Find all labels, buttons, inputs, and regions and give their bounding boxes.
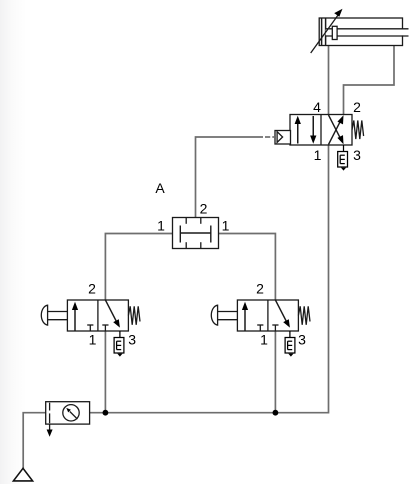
svg-text:3: 3 xyxy=(128,332,136,348)
blocked port T marks xyxy=(89,325,91,331)
svg-text:3: 3 xyxy=(298,332,306,348)
wire: valve S2 port 1 down to supply line xyxy=(274,331,276,413)
svg-text:2: 2 xyxy=(353,99,361,115)
svg-text:A: A xyxy=(155,180,165,196)
valve S1: 3/2-way pushbutton valve, spring return xyxy=(41,300,140,331)
spring xyxy=(352,121,364,140)
svg-text:1: 1 xyxy=(157,217,165,233)
up arrow left box xyxy=(74,306,76,331)
spring xyxy=(128,306,140,325)
svg-text:1: 1 xyxy=(89,332,97,348)
valve S2: 3/2-way pushbutton valve, spring return xyxy=(211,300,310,331)
service unit: filter/regulator with gauge xyxy=(46,402,90,437)
svg-text:3: 3 xyxy=(353,147,361,163)
wire: supply bottom line and riser to valve V1 port 1 xyxy=(90,145,329,413)
pushbutton xyxy=(41,305,47,325)
wire: valve S1 port 1 down to supply line xyxy=(104,331,106,413)
diagonal 2->3 with arrow xyxy=(275,300,287,323)
wire: valve A output up and over to pilot of V1 (solid part) xyxy=(196,137,264,218)
valve V1: 4/2-way pilot operated, spring return xyxy=(275,115,364,146)
up arrow left box xyxy=(244,306,246,331)
left box down arrow xyxy=(312,116,314,140)
cylinder: double-acting with adjustable cushioning xyxy=(311,9,409,53)
compressed air source xyxy=(13,468,32,481)
wire: valve A right port to valve S2 port 2 xyxy=(219,234,276,301)
svg-text:1: 1 xyxy=(260,332,268,348)
left box up arrow xyxy=(297,120,299,144)
silencer at S1 port 3 xyxy=(114,331,124,357)
wire: pilot dashed segment xyxy=(265,136,270,138)
diagonal 2->3 with arrow xyxy=(105,300,117,323)
wire: cylinder right port to valve V1 port 2 xyxy=(344,46,395,115)
svg-text:1: 1 xyxy=(222,217,230,233)
junction: supply line / valve S2 xyxy=(273,410,279,416)
blocked port T marks xyxy=(259,325,261,331)
svg-text:2: 2 xyxy=(200,201,208,217)
wire: service unit inlet to compressed air source xyxy=(23,413,46,468)
silencer at V1 port 3 xyxy=(338,145,348,171)
svg-text:4: 4 xyxy=(313,99,321,115)
svg-text:2: 2 xyxy=(256,280,264,296)
right box crossed arrows xyxy=(329,119,342,145)
wire: cylinder left port to valve V1 port 4 xyxy=(328,46,330,115)
drain arrow xyxy=(49,424,51,432)
junction: supply line / valve S1 xyxy=(103,410,109,416)
pilot box xyxy=(275,131,291,145)
spring xyxy=(298,306,310,325)
svg-text:2: 2 xyxy=(88,280,96,296)
svg-text:1: 1 xyxy=(314,147,322,163)
pushbutton xyxy=(211,305,217,325)
silencer at S2 port 3 xyxy=(285,331,295,357)
valve A: two-pressure valve (AND) xyxy=(173,218,219,249)
wire: valve A left port to valve S1 port 2 xyxy=(105,234,172,301)
